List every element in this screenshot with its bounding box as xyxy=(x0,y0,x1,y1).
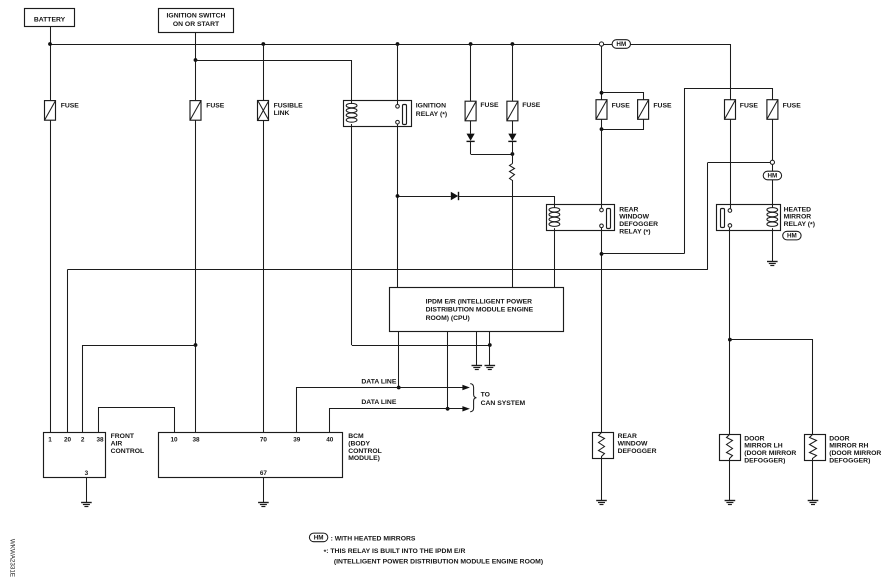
wire IPDM to data line 2 xyxy=(447,331,449,409)
node door mirror branch xyxy=(728,338,732,342)
node ignition junction xyxy=(194,58,198,62)
wire elbow down to defogger coil xyxy=(554,196,556,208)
svg-text:REAR: REAR xyxy=(618,433,637,440)
fuse F4 xyxy=(507,101,541,121)
node battery junction xyxy=(48,42,52,46)
wire pin20 riser elbow xyxy=(707,163,709,270)
svg-text:(DOOR MIRROR: (DOOR MIRROR xyxy=(744,450,796,457)
svg-text:DEFOGGER): DEFOGGER) xyxy=(744,457,785,464)
fuse F1 battery xyxy=(45,101,80,121)
legend HM oval xyxy=(309,533,327,542)
wire IPDM ground 1 xyxy=(476,331,478,365)
svg-text:REAR: REAR xyxy=(619,206,638,213)
wire BCM pin 67 to ground xyxy=(263,478,265,503)
node fuse F6 branch xyxy=(600,91,604,95)
node fuse F4 junction xyxy=(511,42,515,46)
node ignition relay contact top junction xyxy=(396,42,400,46)
wire relay contact bottom to IPDM xyxy=(397,124,399,287)
svg-text:RELAY (*): RELAY (*) xyxy=(619,228,650,236)
node fusible link junction xyxy=(261,42,265,46)
wire IPDM to data line 1 xyxy=(398,331,400,387)
svg-text:FUSIBLE: FUSIBLE xyxy=(274,102,304,109)
svg-text:TO: TO xyxy=(481,392,490,399)
fuse F5 xyxy=(596,100,630,120)
svg-text:DATA LINE: DATA LINE xyxy=(361,399,396,406)
svg-text:ROOM) (CPU): ROOM) (CPU) xyxy=(426,315,470,322)
svg-text:DISTRIBUTION MODULE ENGINE: DISTRIBUTION MODULE ENGINE xyxy=(426,307,534,314)
wire defogger output to fuse bus xyxy=(602,253,685,255)
wire data line 2 xyxy=(330,409,463,433)
BCM box U6 xyxy=(159,433,343,478)
wire door mirror LH to ground xyxy=(729,461,731,501)
contact of ignition relay xyxy=(396,105,407,125)
label TO CAN SYSTEM xyxy=(481,392,526,408)
ground front air control xyxy=(81,503,92,507)
label ignition relay xyxy=(416,102,447,118)
svg-text:HEATED: HEATED xyxy=(784,206,812,213)
svg-text:WINDOW: WINDOW xyxy=(618,441,648,448)
label front air control xyxy=(111,433,145,455)
svg-text:CONTROL: CONTROL xyxy=(111,448,145,455)
battery box B1 xyxy=(25,9,75,27)
wire connector feed horizontal xyxy=(708,162,770,164)
wire ignition switch down xyxy=(195,33,197,101)
fuse F6 xyxy=(638,100,672,120)
node data line 2 junction xyxy=(446,407,450,411)
svg-text:DOOR: DOOR xyxy=(829,435,849,442)
svg-text:ON OR START: ON OR START xyxy=(173,21,220,28)
wire HM oval to heated relay coil xyxy=(772,180,774,208)
wire fuse F6 bottom to join xyxy=(602,120,644,130)
svg-text:DEFOGGER: DEFOGGER xyxy=(618,448,657,455)
svg-text:DATA LINE: DATA LINE xyxy=(361,378,396,385)
wire diode D3 to defogger relay coil xyxy=(459,196,555,198)
op: rear window defogger relay U2 xyxy=(547,205,615,231)
rear window defogger load xyxy=(593,433,614,459)
wire relay contact top xyxy=(397,44,399,104)
ground IPDM 2 xyxy=(485,366,496,370)
wire top bus elbow down to fuse F7 xyxy=(730,44,732,100)
brace to CAN system xyxy=(470,384,476,412)
wire battery down xyxy=(50,27,52,101)
wire to fuse F4 xyxy=(512,44,514,101)
wire fuse F2 to BCM pin 38 xyxy=(195,120,197,432)
node pin2 branch junction xyxy=(194,343,198,347)
wire connector circle down to fuse F5 xyxy=(601,46,603,99)
svg-text:FUSE: FUSE xyxy=(206,102,225,109)
label rear window defogger relay xyxy=(619,206,658,236)
ground BCM xyxy=(258,503,269,507)
fuse F3 xyxy=(465,101,499,121)
label door mirror LH xyxy=(744,435,796,464)
coil of ignition relay xyxy=(346,103,357,122)
diode D3 xyxy=(451,192,459,200)
svg-text:FUSE: FUSE xyxy=(612,102,631,109)
wire heated relay contact bottom down xyxy=(729,228,731,435)
node at IPDM ground wire xyxy=(488,343,492,347)
svg-text:IGNITION SWITCH: IGNITION SWITCH xyxy=(167,13,226,20)
wire top bus left xyxy=(50,44,599,46)
wire front air pin38 to BCM pin10 xyxy=(99,408,175,433)
svg-text:67: 67 xyxy=(260,470,268,477)
svg-text:MODULE): MODULE) xyxy=(348,455,380,462)
wire circle to HM oval xyxy=(772,165,774,172)
fuse F2 ignition xyxy=(190,101,225,121)
svg-text:FRONT: FRONT xyxy=(111,433,135,440)
svg-text:CAN SYSTEM: CAN SYSTEM xyxy=(481,400,526,407)
IPDM E/R box U4 xyxy=(390,288,564,332)
svg-text:LINK: LINK xyxy=(274,110,290,117)
svg-text:BATTERY: BATTERY xyxy=(34,16,66,23)
fusible link FL xyxy=(258,101,304,121)
fuse F7 xyxy=(725,100,759,120)
svg-text:70: 70 xyxy=(260,437,268,444)
wire pin 20 riser xyxy=(67,270,69,433)
node connector circle HM xyxy=(770,160,774,164)
wire relay coil bottom down xyxy=(351,124,353,345)
svg-text:10: 10 xyxy=(170,437,178,444)
svg-text:38: 38 xyxy=(96,437,104,444)
svg-text:AIR: AIR xyxy=(111,441,123,448)
wire diode D3 feed xyxy=(398,196,451,198)
svg-text:38: 38 xyxy=(192,437,200,444)
wire resistor to IPDM xyxy=(512,180,514,288)
HM oval marker on mirror feed xyxy=(763,171,781,180)
svg-text:CONTROL: CONTROL xyxy=(348,448,382,455)
label door mirror RH xyxy=(829,435,881,464)
svg-text:FUSE: FUSE xyxy=(480,102,499,109)
node fuse F3 junction xyxy=(469,42,473,46)
wire diode D1 to junction xyxy=(471,154,513,156)
door mirror LH load xyxy=(720,435,741,461)
svg-text:WKWA2331E: WKWA2331E xyxy=(9,539,16,577)
node defogger output junction xyxy=(600,252,604,256)
label rear window defogger xyxy=(618,433,657,455)
resistor R1 xyxy=(510,164,515,181)
svg-text:DEFOGGER: DEFOGGER xyxy=(619,221,658,228)
svg-text:2: 2 xyxy=(81,437,85,444)
wire fusible link down xyxy=(263,44,265,101)
wire ignition relay coil feed down xyxy=(351,60,353,104)
wire data line 1 xyxy=(297,388,463,433)
wire pin 20 bus xyxy=(68,269,708,271)
ground IPDM 1 xyxy=(472,366,483,370)
HM oval marker on top bus xyxy=(612,40,630,49)
ignition switch box xyxy=(159,9,234,33)
wire fuse F7 to heated relay contact xyxy=(730,119,732,208)
wire diode D2 to resistor xyxy=(512,141,514,163)
node fuse bottoms join xyxy=(600,127,604,131)
wire branch to door mirror RH xyxy=(730,340,813,435)
wire fusible link to BCM pin 70 xyxy=(263,120,265,432)
wire defogger relay contact bottom down xyxy=(601,228,603,433)
wire branch to fuse F6 xyxy=(602,93,644,100)
node diode join xyxy=(511,152,515,156)
wire top bus right xyxy=(630,44,730,46)
svg-text:39: 39 xyxy=(293,437,301,444)
wire ignition branch bus xyxy=(196,60,352,62)
coil of heated mirror relay xyxy=(767,208,778,227)
label heated mirror relay xyxy=(784,206,815,228)
fuse F8 xyxy=(767,100,801,120)
wire defogger relay coil bottom to IPDM xyxy=(554,228,556,287)
diode D2 xyxy=(508,134,516,142)
svg-text:RELAY (*): RELAY (*) xyxy=(416,111,447,119)
diode D1 xyxy=(467,134,475,142)
svg-text:FUSE: FUSE xyxy=(783,102,802,109)
svg-text:FUSE: FUSE xyxy=(740,102,759,109)
wire fuse F8 down to connector xyxy=(772,119,774,160)
coil of defogger relay xyxy=(549,208,560,227)
svg-text:FUSE: FUSE xyxy=(61,102,80,109)
svg-text:RELAY (*): RELAY (*) xyxy=(784,221,815,229)
svg-text:DEFOGGER): DEFOGGER) xyxy=(829,457,870,464)
svg-text:BCM: BCM xyxy=(348,433,364,440)
ground heated relay coil xyxy=(767,262,778,266)
svg-text:*: THIS RELAY IS BUILT INTO TH: *: THIS RELAY IS BUILT INTO THE IPDM E/R xyxy=(324,548,466,556)
op: heated mirror relay U3 xyxy=(717,205,781,231)
wire rear defogger to ground xyxy=(601,459,603,501)
front air control box U5 xyxy=(44,433,106,478)
node connector circle on top bus xyxy=(599,42,603,46)
svg-text:IPDM E/R (INTELLIGENT POWER: IPDM E/R (INTELLIGENT POWER xyxy=(426,299,533,306)
arrow data line 2 xyxy=(462,406,470,411)
ground door mirror LH xyxy=(725,501,736,505)
door mirror RH load xyxy=(805,435,826,461)
contact of heated mirror relay xyxy=(721,209,732,228)
svg-text:MIRROR LH: MIRROR LH xyxy=(744,443,783,450)
wire fuses to defogger relay contact xyxy=(601,119,603,208)
wire diode D1 down xyxy=(470,141,472,154)
wire IPDM ground 2 xyxy=(489,331,491,365)
wire fuse F4 to diode D2 xyxy=(512,121,514,134)
svg-text:: WITH HEATED MIRRORS: : WITH HEATED MIRRORS xyxy=(331,535,416,542)
contact of defogger relay xyxy=(600,208,611,228)
svg-text:(DOOR MIRROR: (DOOR MIRROR xyxy=(829,450,881,457)
wire front air pin 3 to ground xyxy=(86,478,88,503)
svg-text:3: 3 xyxy=(85,470,89,477)
svg-text:(INTELLIGENT POWER DISTRIBUTIO: (INTELLIGENT POWER DISTRIBUTION MODULE E… xyxy=(334,558,543,565)
wire coil bottom to IPDM ground junction xyxy=(352,345,490,347)
svg-text:WINDOW: WINDOW xyxy=(619,214,649,221)
node relay contact wire junction xyxy=(396,194,400,198)
label BCM xyxy=(348,433,382,462)
wire fuse F1 to pin 1 xyxy=(50,120,52,432)
svg-text:1: 1 xyxy=(48,437,52,444)
wire to fuse F3 xyxy=(470,44,472,101)
op: ignition relay U1 xyxy=(344,101,412,127)
ground rear defogger xyxy=(596,501,607,505)
wire top bus mid xyxy=(604,44,613,46)
svg-text:FUSE: FUSE xyxy=(653,102,672,109)
arrow data line 1 xyxy=(462,385,470,390)
wire fuse F3 to diode D1 xyxy=(470,121,472,134)
wire heated relay coil to ground xyxy=(772,228,774,262)
svg-text:(BODY: (BODY xyxy=(348,441,370,448)
node data line 1 junction xyxy=(397,386,401,390)
svg-text:40: 40 xyxy=(326,437,334,444)
svg-text:20: 20 xyxy=(64,437,72,444)
svg-text:DOOR: DOOR xyxy=(744,435,764,442)
svg-text:IGNITION: IGNITION xyxy=(416,102,446,109)
svg-text:MIRROR RH: MIRROR RH xyxy=(829,443,868,450)
ground door mirror RH xyxy=(808,501,819,505)
svg-text:MIRROR: MIRROR xyxy=(784,214,812,221)
HM oval marker under heated relay label xyxy=(783,231,801,240)
svg-text:FUSE: FUSE xyxy=(522,102,541,109)
wire heated fuses top bus xyxy=(685,89,773,254)
wire pin 2 bus xyxy=(83,346,196,433)
wire door mirror RH to ground xyxy=(812,461,814,501)
